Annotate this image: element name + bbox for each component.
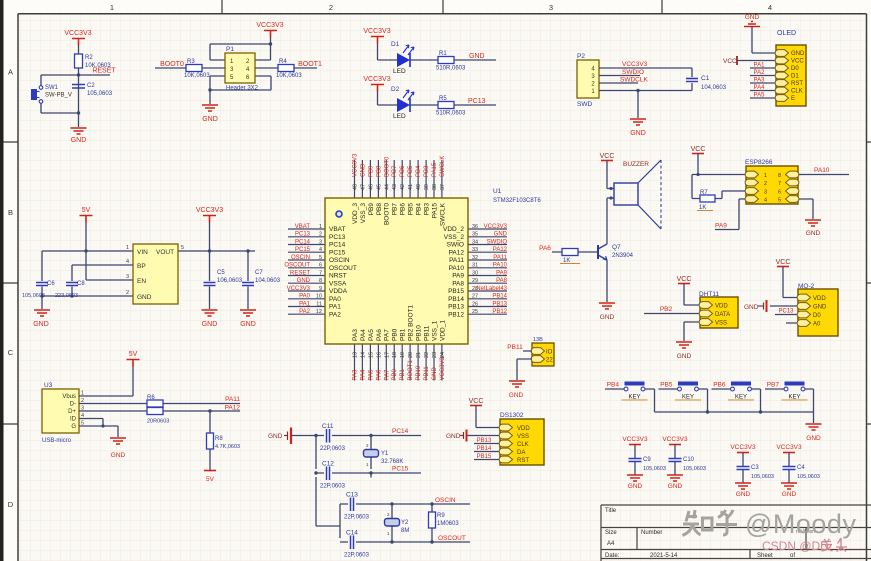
svg-text:22P,0603: 22P,0603: [344, 553, 370, 559]
svg-text:PA1: PA1: [329, 304, 341, 311]
svg-text:B: B: [8, 208, 13, 217]
svg-text:GND: GND: [71, 137, 87, 144]
svg-text:30: 30: [472, 270, 478, 276]
svg-text:VCC3V3: VCC3V3: [64, 30, 91, 37]
svg-text:PB10: PB10: [416, 365, 422, 380]
svg-text:R8: R8: [215, 436, 223, 442]
svg-text:GND: GND: [137, 294, 152, 301]
svg-text:PB7: PB7: [392, 203, 399, 216]
svg-text:PB12: PB12: [448, 311, 464, 318]
svg-text:PA12: PA12: [449, 249, 465, 256]
svg-text:VCC: VCC: [776, 259, 791, 266]
svg-text:SWDIO: SWDIO: [487, 239, 508, 245]
svg-text:PA0: PA0: [329, 296, 341, 303]
svg-text:OSCIN: OSCIN: [329, 257, 350, 264]
svg-text:PA6: PA6: [539, 245, 551, 252]
svg-text:PA11: PA11: [449, 257, 464, 264]
svg-text:PB5: PB5: [660, 382, 673, 389]
svg-text:PB4: PB4: [416, 165, 422, 177]
svg-text:22P,0603: 22P,0603: [320, 446, 346, 452]
svg-text:105,0603: 105,0603: [87, 91, 113, 97]
svg-text:29: 29: [472, 278, 478, 284]
svg-text:1M0603: 1M0603: [437, 521, 459, 527]
svg-text:PA11: PA11: [493, 255, 507, 261]
svg-text:R6: R6: [147, 395, 155, 401]
svg-text:USB-micro: USB-micro: [42, 438, 72, 444]
svg-text:2021-5-14: 2021-5-14: [650, 553, 678, 559]
svg-text:VSS_1: VSS_1: [431, 320, 438, 341]
svg-text:RESET: RESET: [290, 270, 310, 276]
svg-text:105,0603: 105,0603: [22, 293, 45, 299]
svg-text:VIN: VIN: [137, 249, 148, 256]
svg-text:VDD_1: VDD_1: [439, 320, 446, 341]
svg-text:PA2: PA2: [329, 311, 341, 318]
svg-text:VDD: VDD: [715, 304, 728, 310]
svg-text:GND: GND: [432, 367, 438, 381]
svg-text:D2: D2: [391, 86, 400, 93]
svg-text:PA8: PA8: [496, 278, 508, 284]
svg-text:VCC: VCC: [791, 59, 804, 65]
svg-text:43: 43: [392, 184, 398, 190]
svg-text:15: 15: [368, 352, 374, 358]
svg-text:IO: IO: [546, 350, 553, 356]
svg-text:GND: GND: [202, 116, 218, 123]
svg-text:42: 42: [400, 184, 406, 190]
svg-text:C11: C11: [322, 423, 334, 430]
svg-text:VCC3V3: VCC3V3: [622, 61, 648, 68]
svg-text:C5: C5: [217, 270, 225, 276]
svg-text:35: 35: [472, 232, 478, 238]
svg-text:PA9: PA9: [452, 273, 464, 280]
svg-text:Vbus: Vbus: [62, 394, 76, 400]
svg-text:PA11: PA11: [225, 396, 240, 403]
svg-text:G: G: [71, 424, 76, 430]
svg-text:PB0: PB0: [392, 328, 399, 341]
svg-text:20: 20: [408, 352, 414, 358]
svg-text:PA15: PA15: [431, 203, 438, 219]
svg-text:22: 22: [424, 352, 430, 358]
svg-text:104,0603: 104,0603: [701, 85, 727, 91]
svg-text:OSCOUT: OSCOUT: [329, 265, 357, 272]
svg-text:SWCLK: SWCLK: [439, 202, 446, 226]
svg-text:Title: Title: [605, 508, 617, 514]
svg-text:PB11: PB11: [424, 366, 430, 381]
svg-text:106,0603: 106,0603: [217, 278, 243, 284]
svg-text:3: 3: [126, 274, 129, 280]
svg-text:PC14: PC14: [392, 428, 409, 435]
svg-text:Y1: Y1: [381, 451, 389, 457]
svg-text:@Moody: @Moody: [745, 509, 856, 539]
svg-text:7: 7: [778, 181, 781, 187]
svg-text:21: 21: [416, 352, 422, 358]
svg-text:PC14: PC14: [329, 242, 346, 249]
svg-text:GND: GND: [202, 321, 218, 328]
svg-text:PA15: PA15: [432, 162, 438, 177]
svg-text:D0: D0: [791, 66, 799, 72]
svg-text:22: 22: [546, 358, 553, 364]
svg-text:C14: C14: [346, 530, 358, 537]
svg-text:PB13: PB13: [448, 304, 464, 311]
svg-text:PA1: PA1: [299, 301, 311, 307]
svg-text:VCC3V3: VCC3V3: [622, 436, 648, 443]
svg-text:GND: GND: [745, 14, 760, 21]
svg-text:2: 2: [764, 181, 767, 187]
svg-text:46: 46: [368, 184, 374, 190]
svg-text:Sheet: Sheet: [757, 553, 773, 559]
svg-text:R5: R5: [439, 96, 447, 102]
svg-text:C2: C2: [87, 83, 95, 89]
svg-text:SWDCLK: SWDCLK: [620, 77, 648, 84]
svg-text:36: 36: [472, 224, 478, 230]
svg-text:105,0603: 105,0603: [751, 474, 774, 480]
svg-text:10K,0603: 10K,0603: [276, 73, 302, 79]
svg-text:SW-PB_V: SW-PB_V: [45, 93, 72, 99]
svg-text:40: 40: [416, 184, 422, 190]
svg-text:PB7: PB7: [767, 382, 780, 389]
svg-text:LED: LED: [393, 113, 406, 120]
svg-text:44: 44: [384, 184, 390, 190]
svg-text:PA12: PA12: [493, 247, 508, 253]
svg-text:48: 48: [353, 184, 359, 190]
svg-text:BOOT0: BOOT0: [384, 156, 390, 177]
svg-text:RST: RST: [791, 81, 803, 87]
svg-text:223,0603: 223,0603: [55, 293, 78, 299]
svg-text:VCC: VCC: [600, 153, 615, 160]
svg-text:VCC3V3: VCC3V3: [256, 22, 283, 29]
svg-text:GND: GND: [791, 51, 805, 57]
svg-text:GND: GND: [630, 130, 646, 137]
svg-text:PB12: PB12: [492, 309, 507, 315]
svg-text:105,0603: 105,0603: [797, 474, 820, 480]
svg-text:PB5: PB5: [408, 203, 415, 216]
svg-text:SWDIO: SWDIO: [622, 69, 644, 76]
svg-text:37: 37: [440, 184, 446, 190]
svg-text:GND: GND: [446, 433, 461, 440]
svg-text:DA: DA: [517, 450, 525, 456]
svg-text:PA7: PA7: [384, 329, 391, 341]
svg-text:VCC3V3: VCC3V3: [776, 444, 802, 451]
svg-text:5: 5: [319, 255, 322, 261]
svg-text:PA10: PA10: [814, 167, 830, 174]
svg-text:PA7: PA7: [384, 369, 390, 381]
svg-text:BOOT1: BOOT1: [408, 359, 414, 380]
svg-text:PA12: PA12: [225, 405, 241, 412]
svg-text:D: D: [8, 500, 14, 509]
svg-text:31: 31: [472, 263, 478, 269]
svg-text:RST: RST: [517, 458, 529, 464]
svg-text:C8: C8: [77, 281, 85, 287]
svg-text:VCC3V3: VCC3V3: [353, 153, 359, 177]
svg-text:24: 24: [440, 352, 446, 358]
svg-text:510R,0603: 510R,0603: [436, 111, 466, 117]
svg-text:VCC3V3: VCC3V3: [440, 356, 446, 380]
svg-text:5: 5: [778, 198, 781, 204]
svg-text:SWD: SWD: [577, 101, 592, 108]
svg-text:2N3904: 2N3904: [612, 253, 634, 259]
svg-text:PC15: PC15: [392, 466, 409, 473]
svg-text:GND: GND: [677, 353, 692, 360]
svg-text:PA9: PA9: [715, 223, 727, 230]
svg-text:VDDA: VDDA: [329, 288, 348, 295]
svg-text:VSSA: VSSA: [329, 280, 347, 287]
svg-text:VOUT: VOUT: [156, 249, 174, 256]
svg-text:P2: P2: [577, 53, 585, 60]
svg-text:Date:: Date:: [605, 553, 620, 559]
svg-text:VSS_2: VSS_2: [444, 234, 465, 241]
svg-text:PB4: PB4: [607, 382, 620, 389]
svg-text:PB13: PB13: [492, 301, 507, 307]
svg-text:GND: GND: [806, 230, 821, 237]
svg-text:PB4: PB4: [416, 203, 423, 216]
svg-text:GND: GND: [668, 483, 683, 490]
svg-text:14: 14: [360, 352, 366, 358]
svg-text:R3: R3: [187, 59, 195, 65]
svg-text:VDD_2: VDD_2: [443, 226, 464, 233]
svg-text:R1: R1: [439, 51, 447, 57]
svg-text:VDD: VDD: [517, 426, 530, 432]
svg-text:C10: C10: [683, 457, 695, 463]
svg-text:ESP8266: ESP8266: [745, 159, 773, 166]
svg-text:GND: GND: [744, 304, 759, 311]
svg-text:PC13: PC13: [468, 98, 486, 105]
svg-text:GND: GND: [33, 321, 49, 328]
svg-text:PC14: PC14: [295, 239, 311, 245]
svg-text:EN: EN: [137, 278, 146, 285]
svg-text:STM32F103C8T6: STM32F103C8T6: [493, 198, 541, 204]
svg-text:PA10: PA10: [449, 265, 465, 272]
svg-text:GND: GND: [736, 491, 751, 498]
svg-text:D-: D-: [70, 402, 76, 408]
svg-text:PB9: PB9: [368, 203, 375, 216]
svg-text:PB15: PB15: [448, 288, 464, 295]
svg-text:DATA: DATA: [715, 312, 730, 318]
svg-text:VCC: VCC: [691, 146, 706, 153]
svg-text:C13: C13: [346, 492, 358, 499]
svg-text:Header 3X2: Header 3X2: [226, 86, 259, 92]
svg-text:VCC3V3: VCC3V3: [363, 28, 390, 35]
svg-text:GND: GND: [806, 435, 821, 442]
svg-text:Number: Number: [641, 530, 662, 536]
svg-text:E: E: [791, 96, 795, 102]
svg-text:3: 3: [319, 239, 322, 245]
svg-text:16: 16: [376, 352, 382, 358]
svg-text:PB3: PB3: [423, 203, 430, 216]
svg-text:GND: GND: [494, 232, 508, 238]
svg-text:8: 8: [319, 278, 322, 284]
svg-text:VCC3V3: VCC3V3: [363, 76, 390, 83]
svg-text:32: 32: [472, 255, 478, 261]
svg-text:1: 1: [319, 224, 322, 230]
svg-text:34: 34: [472, 239, 478, 245]
svg-text:7: 7: [319, 270, 322, 276]
svg-text:PA4: PA4: [754, 85, 766, 91]
svg-text:VDD_3: VDD_3: [352, 203, 359, 224]
svg-text:BOOT1: BOOT1: [298, 61, 322, 68]
svg-text:GND: GND: [509, 392, 524, 399]
svg-text:PB8: PB8: [376, 165, 382, 177]
svg-text:45: 45: [376, 184, 382, 190]
svg-text:6: 6: [778, 190, 781, 196]
svg-text:PB6: PB6: [400, 203, 407, 216]
svg-text:GND: GND: [813, 305, 827, 311]
svg-text:25: 25: [472, 309, 478, 315]
svg-text:U3: U3: [44, 382, 53, 389]
svg-text:VCC3V3: VCC3V3: [196, 207, 223, 214]
svg-text:BUZZER: BUZZER: [623, 161, 649, 168]
svg-text:VCC3V3: VCC3V3: [662, 436, 688, 443]
svg-text:PB5: PB5: [408, 165, 414, 177]
svg-text:104,0603: 104,0603: [255, 278, 281, 284]
svg-text:PB6: PB6: [400, 165, 406, 177]
svg-text:C1: C1: [701, 75, 710, 82]
svg-text:GND: GND: [600, 314, 615, 321]
svg-text:BOOT0: BOOT0: [160, 61, 184, 68]
svg-text:5: 5: [181, 245, 184, 251]
svg-text:6: 6: [319, 263, 322, 269]
svg-text:5V: 5V: [206, 476, 215, 483]
svg-text:PB0: PB0: [392, 368, 398, 380]
svg-text:41: 41: [408, 184, 414, 190]
svg-text:38: 38: [432, 184, 438, 190]
svg-text:18: 18: [392, 352, 398, 358]
svg-text:PB3: PB3: [424, 165, 430, 177]
svg-text:VSS: VSS: [715, 321, 727, 327]
svg-text:C9: C9: [643, 457, 651, 463]
svg-text:27: 27: [472, 294, 478, 300]
svg-text:GND: GND: [360, 163, 366, 177]
svg-text:33: 33: [472, 247, 478, 253]
svg-text:VCC3V3: VCC3V3: [484, 224, 508, 230]
svg-text:PA0: PA0: [299, 294, 311, 300]
svg-text:11: 11: [316, 301, 322, 307]
svg-text:5V: 5V: [82, 207, 91, 214]
svg-text:VCC3V3: VCC3V3: [730, 444, 756, 451]
svg-text:CLK: CLK: [517, 442, 529, 448]
svg-text:A4: A4: [607, 541, 615, 547]
svg-text:5V: 5V: [129, 351, 138, 358]
svg-text:NetLabel43: NetLabel43: [476, 286, 507, 292]
svg-text:10: 10: [316, 294, 322, 300]
svg-text:GND: GND: [297, 278, 311, 284]
svg-text:C7: C7: [255, 270, 263, 276]
svg-text:GND: GND: [240, 321, 256, 328]
svg-text:DS1302: DS1302: [500, 412, 524, 419]
svg-text:PA6: PA6: [376, 369, 382, 381]
svg-text:D+: D+: [68, 409, 76, 415]
svg-text:CSDN @DD: CSDN @DD: [762, 539, 829, 553]
svg-text:D1: D1: [391, 41, 400, 48]
svg-text:PA2: PA2: [299, 309, 311, 315]
svg-text:PC15: PC15: [329, 249, 346, 256]
svg-text:13: 13: [353, 352, 359, 358]
svg-text:19: 19: [400, 352, 406, 358]
svg-text:Q7: Q7: [612, 244, 621, 251]
svg-text:VCC: VCC: [469, 398, 484, 405]
svg-text:105,0603: 105,0603: [683, 466, 706, 472]
svg-text:1: 1: [126, 245, 129, 251]
svg-text:VBAT: VBAT: [295, 224, 311, 230]
svg-text:PB11: PB11: [423, 325, 430, 341]
svg-text:20R0603: 20R0603: [147, 419, 169, 425]
svg-text:PA4: PA4: [360, 329, 367, 341]
svg-text:C: C: [8, 348, 14, 357]
svg-text:2: 2: [329, 3, 333, 12]
svg-text:4: 4: [319, 247, 322, 253]
svg-text:12: 12: [316, 309, 322, 315]
svg-text:C3: C3: [751, 465, 759, 471]
svg-text:PB1: PB1: [400, 328, 407, 341]
svg-text:CLK: CLK: [791, 89, 803, 95]
svg-text:10K,0603: 10K,0603: [184, 73, 210, 79]
svg-text:SWCLK: SWCLK: [440, 156, 446, 177]
svg-text:PB1: PB1: [400, 368, 406, 380]
svg-text:PA5: PA5: [368, 369, 374, 381]
svg-text:D0: D0: [813, 313, 821, 319]
svg-text:U1: U1: [493, 188, 502, 195]
svg-text:BP: BP: [137, 263, 146, 270]
svg-text:GND: GND: [469, 53, 485, 60]
svg-text:105,0603: 105,0603: [643, 466, 666, 472]
svg-text:PB14: PB14: [492, 294, 507, 300]
svg-text:BOOT0: BOOT0: [384, 203, 391, 225]
svg-text:PC13: PC13: [778, 309, 794, 315]
svg-text:NRST: NRST: [329, 273, 347, 280]
svg-text:4.7K,0603: 4.7K,0603: [215, 444, 240, 450]
svg-text:OSCOUT: OSCOUT: [284, 263, 310, 269]
svg-text:PB15: PB15: [477, 454, 492, 460]
svg-text:SW1: SW1: [45, 85, 59, 91]
svg-text:VCC3V3: VCC3V3: [287, 286, 311, 292]
svg-text:13B: 13B: [533, 337, 543, 343]
svg-text:2: 2: [319, 232, 322, 238]
svg-text:PB2 BOOT1: PB2 BOOT1: [408, 304, 415, 341]
svg-text:PA8: PA8: [452, 280, 464, 287]
svg-text:47: 47: [360, 184, 366, 190]
svg-text:PB11: PB11: [507, 344, 523, 351]
svg-text:R2: R2: [85, 55, 93, 61]
svg-text:8: 8: [778, 173, 781, 179]
svg-text:23: 23: [432, 352, 438, 358]
svg-text:OSCIN: OSCIN: [291, 255, 310, 261]
svg-text:PA5: PA5: [754, 93, 766, 99]
svg-text:2: 2: [126, 290, 129, 296]
svg-text:LED: LED: [393, 68, 406, 75]
svg-text:OLED: OLED: [777, 30, 796, 37]
svg-text:PB2: PB2: [660, 306, 673, 313]
svg-text:SWIO: SWIO: [447, 242, 464, 249]
svg-text:C12: C12: [322, 461, 334, 468]
svg-text:GND: GND: [782, 491, 797, 498]
svg-text:ID: ID: [70, 417, 77, 423]
svg-text:PB9: PB9: [368, 165, 374, 177]
svg-text:17: 17: [384, 352, 390, 358]
svg-text:Size: Size: [605, 530, 617, 536]
svg-text:9: 9: [319, 286, 322, 292]
svg-text:PA1: PA1: [754, 63, 766, 69]
svg-text:26: 26: [472, 301, 478, 307]
svg-text:PB14: PB14: [448, 296, 464, 303]
svg-text:PA3: PA3: [754, 78, 766, 84]
svg-text:of: of: [790, 553, 795, 559]
svg-text:PA4: PA4: [360, 369, 366, 381]
svg-text:PC13: PC13: [295, 232, 311, 238]
svg-text:PA3: PA3: [353, 369, 359, 381]
svg-text:3: 3: [764, 190, 767, 196]
svg-text:3: 3: [549, 3, 553, 12]
svg-text:PA5: PA5: [368, 329, 375, 341]
svg-text:C6: C6: [47, 281, 55, 287]
svg-text:32.768K: 32.768K: [381, 459, 403, 465]
